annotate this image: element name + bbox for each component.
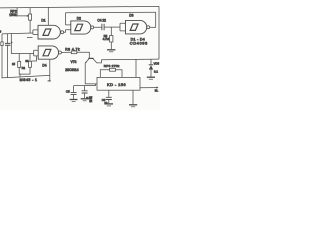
- svg-text:10: 10: [104, 101, 107, 105]
- wire RP3 right lead to box top: [116, 70, 123, 78]
- wire IC output to speaker: [140, 87, 157, 89]
- svg-text:VT4: VT4: [71, 60, 77, 64]
- resistor R5 bottom lead: [110, 42, 112, 49]
- svg-text:BL: BL: [155, 89, 159, 93]
- capacitor C4 plates: [102, 24, 104, 31]
- wire feedback right drop to D3 output: [155, 12, 157, 27]
- svg-text:3.1: 3.1: [154, 70, 158, 74]
- gate D4 output bubble: [58, 51, 61, 54]
- wire Vcc drop to IC box top: [135, 59, 137, 77]
- wire top supply rail: [0, 6, 159, 8]
- capacitor C5a lead: [73, 86, 75, 92]
- capacitor C6 lead from box bottom: [108, 90, 110, 97]
- svg-text:D3: D3: [129, 14, 133, 18]
- capacitor C1 polarity plus: [11, 42, 13, 44]
- wire decoupling sub-rail: [74, 84, 96, 86]
- resistor R8 body: [71, 51, 77, 54]
- capacitor C5b bottom lead: [84, 93, 86, 98]
- gas sensor bottom tie wire: [19, 67, 30, 74]
- potentiometer RP2 wiper branch: [17, 8, 27, 16]
- svg-text:VD5: VD5: [154, 62, 160, 66]
- gate D3 input stubs: [120, 23, 126, 31]
- svg-text:KD - 156: KD - 156: [107, 82, 126, 87]
- wire D1 output to D2 lower input: [64, 30, 66, 32]
- svg-text:D4: D4: [42, 63, 46, 67]
- transistor VT4 emitter with arrow: [85, 59, 89, 63]
- ground under C5a: [70, 99, 78, 101]
- capacitor C5a bottom lead: [73, 95, 75, 99]
- svg-text:D1: D1: [41, 19, 45, 23]
- gate D4 input stubs: [34, 50, 39, 56]
- capacitor C6 bottom lead: [108, 100, 110, 104]
- transistor VT4 collector: [93, 59, 101, 63]
- wire collector/Vcc horizontal: [101, 58, 159, 61]
- wire feedback top: [66, 11, 156, 14]
- gate D2 input stubs: [66, 13, 71, 30]
- capacitor C6 plates: [106, 97, 112, 99]
- potentiometer RP2 wiper arrowhead: [27, 15, 29, 17]
- svg-text:150k: 150k: [9, 13, 17, 17]
- gate D4 hysteresis symbol: [43, 49, 51, 55]
- gate D3 output bubble: [147, 26, 150, 29]
- sensor series resistor R1 (left edge): [1, 42, 3, 46]
- svg-text:36: 36: [25, 59, 29, 63]
- ground under zener: [147, 76, 155, 78]
- junction stub below pot: [27, 36, 33, 38]
- wire C4 to D3 input: [104, 26, 120, 28]
- node A wire to D1 input: [2, 32, 33, 35]
- gas sensor element 2 body: [29, 61, 32, 67]
- ground under C6: [105, 103, 113, 105]
- bottom left rail: [2, 75, 51, 78]
- zener VD bottom lead: [150, 70, 152, 77]
- zener VD triangle: [149, 65, 153, 69]
- svg-text:D2: D2: [77, 17, 81, 21]
- gate D2 body: [71, 21, 91, 34]
- D4 power pin tick: [48, 80, 51, 82]
- IC box ground pin 2: [132, 90, 134, 104]
- gate D1 hysteresis symbol: [43, 29, 51, 35]
- wire D2 output to C4: [94, 26, 102, 28]
- capacitor C5b lead: [84, 86, 86, 91]
- wire RP3 left lead to box top: [100, 70, 109, 78]
- gate D1 input stubs: [33, 30, 38, 35]
- D1 power pin riser: [47, 7, 49, 25]
- capacitor C5a plates: [71, 92, 77, 94]
- resistor R5 top lead: [110, 27, 112, 35]
- svg-text:R1: R1: [22, 66, 26, 70]
- zener VD cathode bar: [149, 64, 154, 66]
- gas sensor element 2 drop: [29, 54, 31, 62]
- potentiometer RP2 top lead: [29, 8, 31, 14]
- wire right edge drop from top rail: [158, 6, 160, 59]
- gate D4 body: [38, 46, 58, 59]
- ground under pin 2: [129, 104, 137, 106]
- gate D1 body: [38, 25, 60, 39]
- wire D3 output: [150, 26, 156, 28]
- svg-text:B: B: [0, 30, 1, 34]
- node B wire to D4 input: [11, 52, 33, 54]
- gas sensor element 1 body: [18, 61, 21, 67]
- ground under C5b: [81, 98, 89, 100]
- wire R1 top lead: [1, 34, 3, 42]
- svg-text:4.7M: 4.7M: [103, 37, 110, 41]
- gate D3 body: [126, 20, 147, 34]
- svg-text:RP3 270k: RP3 270k: [104, 64, 120, 68]
- svg-text:22: 22: [89, 99, 92, 103]
- resistor RP3 body: [110, 68, 116, 71]
- IC box KD-156: [97, 77, 140, 90]
- gas sensor input hook from D4 stub: [32, 56, 37, 61]
- transistor VT4 base bar: [88, 57, 93, 59]
- wire node A to node B riser: [10, 34, 12, 54]
- zener VD top lead: [150, 59, 152, 64]
- D4 power pin drop: [49, 59, 51, 81]
- svg-text:C7: C7: [89, 96, 93, 100]
- capacitor C1 bottom lead: [7, 45, 9, 77]
- wire VT4 emitter down to IC supply: [85, 63, 97, 84]
- wire R1 bottom lead: [1, 46, 3, 78]
- capacitor C1 top lead: [7, 34, 9, 43]
- resistor R5 body: [110, 36, 113, 43]
- wire R8 to VT4 base: [77, 52, 90, 58]
- capacitor C5b plates: [82, 91, 88, 93]
- svg-text:MG45 - 1: MG45 - 1: [20, 78, 38, 82]
- wire D4 output to R8: [61, 51, 71, 53]
- svg-text:C4 22: C4 22: [97, 18, 106, 22]
- gas sensor drop to rail: [19, 74, 21, 77]
- gas sensor MG45-1 element 1 drop: [18, 54, 20, 62]
- svg-text:R8 4.7k: R8 4.7k: [65, 47, 80, 51]
- svg-text:2SC9014: 2SC9014: [65, 68, 79, 72]
- gate D1 output bubble: [61, 31, 64, 34]
- svg-text:15: 15: [12, 62, 16, 66]
- potentiometer RP2 body: [29, 14, 32, 20]
- potentiometer RP2 bottom lead: [29, 20, 31, 33]
- capacitor C1 plates: [5, 43, 10, 45]
- svg-text:CD4093: CD4093: [130, 41, 148, 46]
- ground under R5: [107, 49, 115, 51]
- gate D2 hysteresis symbol: [75, 24, 83, 30]
- svg-text:C5: C5: [66, 90, 70, 94]
- speaker connector mark: [156, 86, 158, 88]
- gate D2 output bubble: [91, 26, 94, 29]
- gate D3 hysteresis symbol: [130, 24, 138, 30]
